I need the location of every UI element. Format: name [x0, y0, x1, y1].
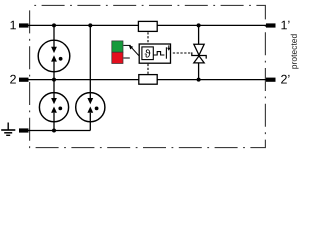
TVS zener bar with end ticks: [192, 52, 206, 58]
gas discharge tube F3 (line1-ground): [76, 93, 105, 122]
terminal 2' label: [281, 75, 289, 84]
dashed link thermal disconnect to R2: [147, 64, 149, 74]
protected label (vertical): [291, 34, 299, 68]
gas discharge tube F1 (line1-line2): [38, 40, 70, 72]
junction node ground bus/x54: [52, 129, 56, 133]
theta glyph: [145, 49, 151, 57]
terminal 1' label: [281, 21, 289, 30]
terminal 2 label: [10, 75, 16, 84]
terminal 1' (clamp bar): [266, 23, 276, 27]
thermal sensor box with theta: [142, 47, 153, 60]
junction node line2/x54: [52, 78, 56, 82]
junction node line1/x90: [88, 23, 92, 27]
indicator linkage lower line: [123, 57, 129, 59]
status indicator (green field): [112, 41, 123, 52]
junction node line1/x54: [52, 23, 56, 27]
thermal disconnect device U1 (box): [139, 44, 170, 63]
gas discharge tube F2 (line2-ground): [39, 93, 68, 122]
disconnect step line: [153, 52, 164, 55]
status indicator (red field): [112, 52, 123, 63]
TVS suppressor diode D1 (bidirectional): [194, 44, 204, 63]
disconnect switch blade: [165, 47, 167, 58]
junction node line2/TVS: [197, 78, 201, 82]
indicator linkage diagonal: [130, 46, 139, 55]
ground symbol: [1, 123, 15, 136]
wire: line 1 (top, terminal 1 to 1'): [28, 24, 266, 26]
terminal ground (clamp bar): [19, 128, 29, 132]
indicator linkage arrowhead: [129, 45, 133, 49]
indicator linkage upper line: [123, 44, 130, 46]
wire: ground bus (bottom): [28, 130, 90, 132]
wire: vertical branch x=54 (line1 - GDT F1 - line2 - GDT F2 - ground bus): [53, 25, 55, 130]
terminal 1 label: [10, 21, 15, 30]
disconnect motion arrow: [167, 45, 170, 50]
wire: vertical branch x=90 (line1 - crosses line2 - GDT F3 - ground bus): [89, 25, 91, 130]
wire: line 2 (terminal 2 to 2'): [28, 79, 266, 81]
terminal 2 (clamp bar): [19, 78, 29, 82]
wire: vertical branch x=198.6 (TVS diode branch): [198, 25, 200, 79]
terminal 2' (clamp bar): [266, 78, 276, 82]
device boundary (dash-dot frame): [30, 5, 266, 147]
terminal 1 (clamp bar): [19, 23, 29, 27]
dashed link thermal disconnect to TVS: [173, 52, 192, 54]
series impedance R1 (box in line 1): [138, 21, 157, 31]
junction node line1/TVS: [197, 23, 201, 27]
series impedance R2 (box in line 2): [139, 75, 157, 85]
dashed link R1 to thermal disconnect: [147, 32, 149, 44]
